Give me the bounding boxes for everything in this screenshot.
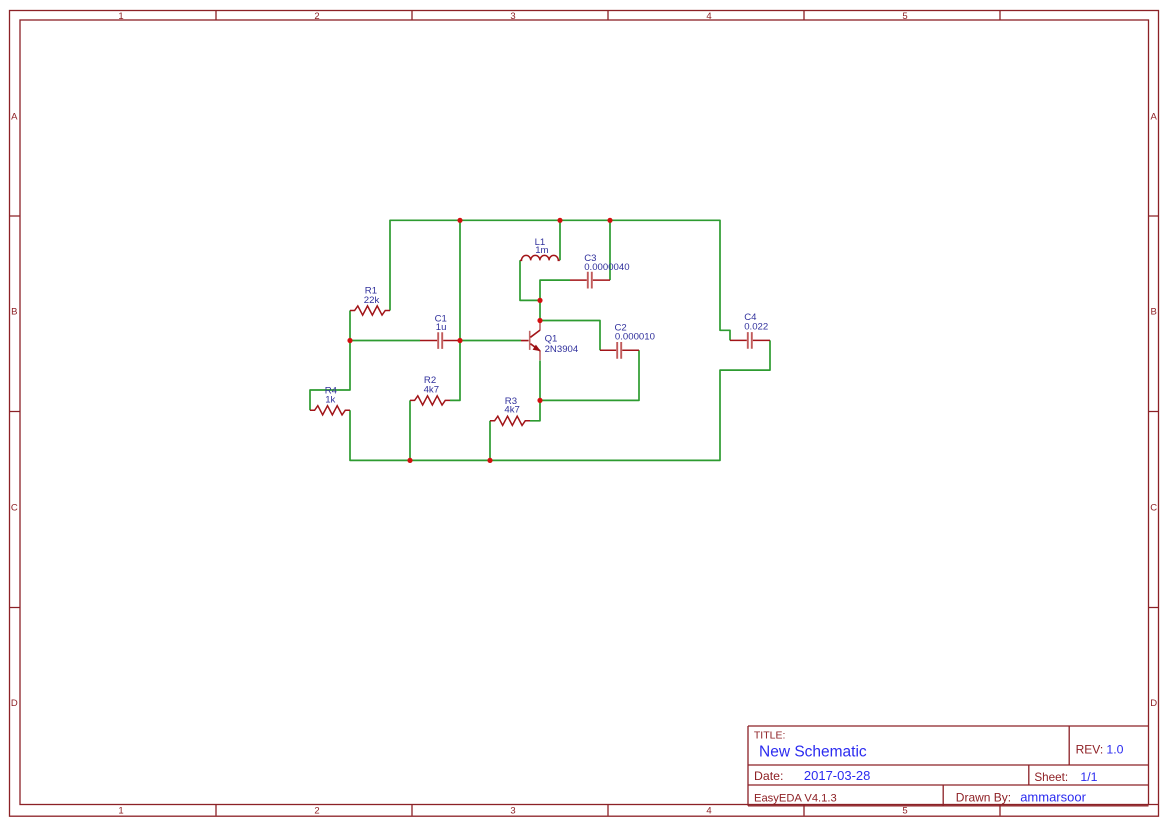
svg-text:1/1: 1/1 (1080, 770, 1097, 784)
node top rail / C3 (607, 218, 612, 223)
wire top rail VCC (390, 220, 730, 340)
wire R1 left down to base rail (349, 311, 351, 341)
wire emitter down (539, 361, 541, 401)
node emitter (537, 398, 542, 403)
svg-text:Sheet:: Sheet: (1034, 771, 1068, 784)
svg-text:1u: 1u (436, 322, 447, 333)
svg-text:3: 3 (510, 805, 515, 816)
svg-text:1.0: 1.0 (1106, 743, 1123, 757)
wire C2 right return (540, 350, 639, 400)
resistor R2 (410, 396, 450, 405)
svg-text:4k7: 4k7 (424, 384, 439, 395)
svg-text:1: 1 (118, 11, 123, 22)
wire node to collector junction (539, 300, 541, 320)
node collector (537, 318, 542, 323)
svg-text:2N3904: 2N3904 (545, 344, 579, 355)
wire collector to C2 top (540, 321, 600, 351)
inductor L1 (520, 255, 560, 260)
capacitor C4 (730, 332, 770, 349)
border column ticks top (216, 11, 1000, 21)
svg-text:3: 3 (510, 11, 515, 22)
svg-text:REV:: REV: (1076, 743, 1104, 757)
svg-text:B: B (1151, 307, 1157, 318)
svg-text:EasyEDA V4.1.3: EasyEDA V4.1.3 (754, 792, 837, 804)
node base rail left (347, 338, 352, 343)
resistor R3 (490, 416, 530, 425)
title block texts (754, 730, 1124, 805)
svg-text:2: 2 (314, 11, 319, 22)
svg-text:2: 2 (314, 805, 319, 816)
wire C3 right vertical (609, 220, 611, 280)
svg-text:1m: 1m (535, 245, 548, 256)
svg-text:0.022: 0.022 (744, 322, 768, 333)
wire vertical x=460 from top rail to R2 (450, 220, 460, 400)
border row ticks left (10, 216, 21, 608)
wire R3 left down to ground rail (489, 421, 491, 461)
node ground rail / R3 (487, 458, 492, 463)
node top rail / L1 (557, 218, 562, 223)
node top rail / x460 (457, 218, 462, 223)
capacitor C1 (420, 332, 460, 349)
resistor R4 (310, 406, 350, 415)
wire R2 left down to ground rail (409, 400, 411, 460)
svg-text:D: D (1150, 698, 1157, 709)
svg-text:4: 4 (706, 805, 711, 816)
capacitor C2 (600, 342, 639, 359)
svg-text:C: C (11, 502, 18, 513)
svg-text:TITLE:: TITLE: (754, 730, 786, 742)
svg-text:1k: 1k (325, 395, 335, 406)
svg-text:ammarsoor: ammarsoor (1020, 789, 1086, 804)
svg-text:2017-03-28: 2017-03-28 (804, 768, 871, 783)
svg-text:1: 1 (118, 805, 123, 816)
svg-text:Drawn By:: Drawn By: (956, 790, 1011, 804)
resistor R1 (350, 306, 390, 315)
svg-text:4: 4 (706, 11, 711, 22)
node ground rail / R2 (407, 458, 412, 463)
svg-text:B: B (11, 307, 17, 318)
wire base rail right segment (460, 340, 521, 342)
border row ticks right (1149, 216, 1159, 805)
wire L1 left down and over to node (520, 260, 540, 300)
svg-text:A: A (1151, 111, 1158, 122)
wire emitter junction down to R3 (530, 400, 540, 420)
svg-text:Q1: Q1 (545, 334, 558, 345)
wire L1 top feed (559, 220, 561, 260)
svg-text:New Schematic: New Schematic (759, 744, 867, 761)
svg-text:22k: 22k (364, 295, 380, 306)
svg-text:D: D (11, 698, 18, 709)
capacitor C3 (570, 272, 610, 289)
wire ground bottom rail from R4 to C4 return (350, 340, 770, 460)
node base rail / C1 right (457, 338, 462, 343)
svg-text:A: A (11, 111, 18, 122)
svg-text:C: C (1150, 502, 1157, 513)
node L1 bottom / C3 (537, 298, 542, 303)
svg-text:0.000010: 0.000010 (615, 331, 655, 342)
svg-text:0.0000040: 0.0000040 (584, 262, 629, 273)
wire base rail left segment (350, 340, 420, 342)
transistor Q1 2N3904 (521, 321, 541, 361)
svg-text:5: 5 (902, 11, 907, 22)
svg-text:Date:: Date: (754, 769, 783, 783)
border column ticks bottom (216, 805, 1000, 816)
svg-text:5: 5 (902, 805, 907, 816)
wire C3 left branch (540, 280, 570, 300)
svg-text:4k7: 4k7 (504, 405, 519, 416)
title block frame (748, 726, 1149, 806)
wire R4 left loop (310, 341, 350, 411)
